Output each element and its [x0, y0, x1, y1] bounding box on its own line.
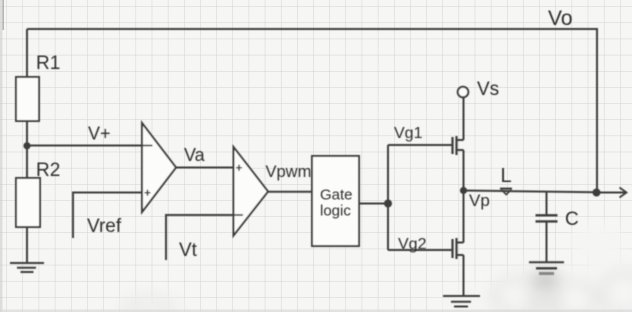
- svg-text:L: L: [501, 165, 512, 187]
- wire Q2 source to ground: [463, 255, 465, 296]
- op-amp U2 (PWM comparator): [234, 147, 269, 236]
- wire Q1 drain to Vs: [463, 98, 465, 140]
- svg-text:Gate: Gate: [320, 187, 353, 204]
- transistor Q1 (high-side NMOS): [453, 136, 464, 155]
- U1 minus input stub: [142, 145, 153, 147]
- node V+ junction: [23, 142, 30, 149]
- capacitor C: [536, 191, 558, 262]
- svg-text:R2: R2: [36, 160, 60, 181]
- wire R2 bottom to ground: [26, 227, 28, 263]
- wire V+ to U1 inverting input: [27, 145, 142, 147]
- svg-text:Vo: Vo: [548, 7, 573, 30]
- wire feedback to R1 top: [26, 29, 28, 77]
- node Vo output junction: [593, 189, 601, 197]
- wire Vg1 to Q1 gate: [388, 144, 452, 146]
- wire Q1 source to Vp: [463, 150, 465, 191]
- svg-text:C: C: [565, 209, 579, 230]
- svg-text:Vs: Vs: [477, 79, 499, 100]
- terminal Vs: [458, 87, 469, 98]
- transistor Q2 (low-side NMOS): [453, 238, 464, 259]
- junction gate drive node: [384, 200, 392, 208]
- svg-text:Vt: Vt: [179, 240, 198, 261]
- node Vp junction: [460, 187, 467, 194]
- wire Q2 drain to Vp: [463, 191, 465, 243]
- svg-text:Vg2: Vg2: [398, 236, 427, 253]
- wire node to R2 top: [26, 146, 28, 178]
- svg-text:Vg1: Vg1: [394, 125, 423, 142]
- wire Vt to U2 minus input: [166, 215, 234, 260]
- wire gate drive vertical bus: [387, 145, 389, 250]
- wire Vo feedback (top rail and right drop): [27, 29, 597, 192]
- wire Vref to U1 plus input: [73, 193, 142, 239]
- U2 minus input stub: [234, 214, 244, 216]
- wire Vp to output node: [464, 191, 597, 193]
- svg-text:R1: R1: [36, 53, 60, 74]
- svg-text:Va: Va: [184, 145, 206, 165]
- resistor R2: [16, 178, 40, 227]
- ground (below Q2): [443, 296, 480, 307]
- inductor L marker: [500, 189, 512, 195]
- svg-text:V+: V+: [88, 124, 111, 144]
- wire Vpwm (U2 output to gate logic): [268, 191, 312, 193]
- op-amp U1 (error comparator): [142, 123, 176, 212]
- wire Vg2 to Q2 gate: [388, 249, 452, 251]
- resistor R1: [16, 77, 39, 121]
- wire output arrow: [597, 188, 627, 198]
- ground (below R2): [10, 263, 44, 272]
- U2 plus input marker: [236, 165, 242, 171]
- U1 plus input marker: [145, 190, 151, 196]
- svg-text:Vpwm: Vpwm: [266, 163, 312, 181]
- svg-text:logic: logic: [320, 203, 351, 220]
- ground (below C): [529, 262, 564, 273]
- wire R1 bottom to node V+: [26, 121, 28, 146]
- wire gate logic output: [359, 203, 388, 205]
- wire Va (U1 output to U2 input): [176, 167, 234, 169]
- svg-text:Vref: Vref: [87, 216, 122, 237]
- gate logic block U3: [312, 156, 359, 246]
- svg-text:Vp: Vp: [469, 191, 490, 210]
